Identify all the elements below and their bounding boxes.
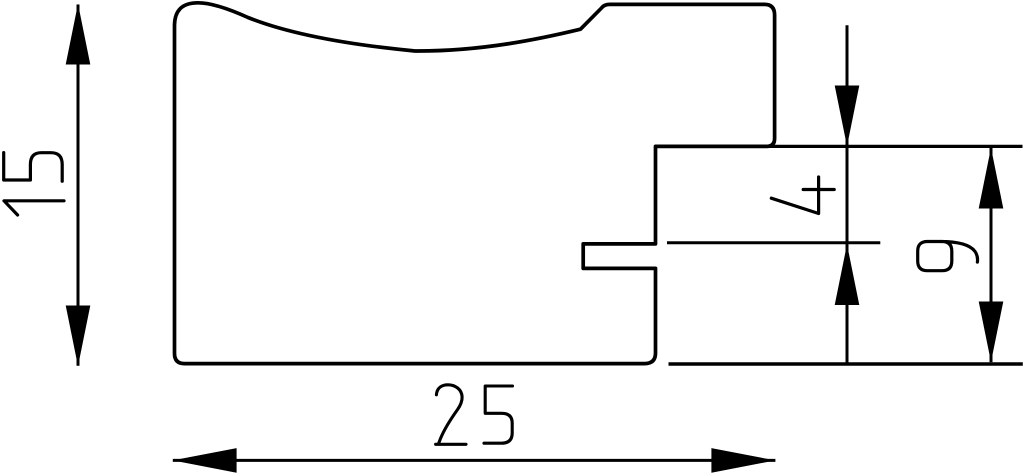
moulding profile outline — [175, 3, 775, 364]
extension line notch level — [667, 241, 880, 244]
text 9 (rotated) — [918, 242, 978, 271]
digit 5 — [4, 153, 63, 182]
dimension line 9 — [990, 148, 993, 363]
text 25 (upright) — [436, 385, 513, 445]
arrow 15 down — [66, 306, 91, 367]
digit 2 — [436, 385, 466, 445]
arrow 25 left — [173, 448, 237, 473]
arrow 9 down — [979, 302, 1004, 363]
arrow 25 right — [711, 448, 775, 473]
dimension line 4 — [846, 25, 849, 362]
arrow 4 down (to rabbet top) — [835, 86, 860, 147]
dimension line 15 — [77, 5, 80, 366]
digit 1 — [4, 201, 64, 215]
text 4 (rotated) — [771, 177, 834, 214]
arrow 9 up — [979, 148, 1004, 209]
text 15 (rotated) — [4, 153, 64, 215]
dimension line 25 — [173, 459, 776, 462]
arrow 4 up (to notch line) — [835, 244, 860, 305]
extension line rabbet top — [656, 145, 1023, 148]
arrow 15 up — [66, 4, 91, 65]
digit 5 — [484, 386, 513, 443]
extension line bottom — [669, 362, 1023, 365]
